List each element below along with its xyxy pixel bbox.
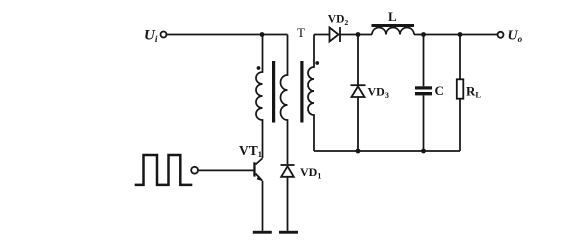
- wire base: [198, 169, 253, 171]
- terminal Uo: [498, 32, 504, 38]
- svg-text:Ui: Ui: [144, 28, 158, 46]
- ground VD1 anode: [279, 231, 298, 234]
- svg-text:C: C: [435, 83, 444, 98]
- svg-text:VD2: VD2: [328, 13, 349, 26]
- wire VD2 to L: [358, 34, 372, 36]
- svg-text:Uo: Uo: [508, 29, 523, 45]
- capacitor C: [415, 35, 432, 152]
- label VD3: [368, 85, 389, 101]
- label RL: [466, 84, 481, 100]
- label T: [297, 25, 305, 40]
- diode VD1: [281, 165, 295, 231]
- label Ui: [144, 28, 158, 46]
- pulse source waveform: [135, 155, 193, 185]
- transistor VT1: [253, 158, 263, 231]
- label C: [435, 83, 444, 98]
- terminal base input: [191, 167, 198, 174]
- transformer secondary winding N2: [308, 35, 314, 152]
- diode VD2: [330, 27, 359, 42]
- svg-text:VT1: VT1: [239, 143, 262, 159]
- polarity dot secondary: [315, 61, 319, 65]
- diode VD3: [351, 35, 366, 152]
- svg-text:RL: RL: [466, 84, 481, 100]
- terminal Ui: [161, 32, 167, 38]
- transformer T primary winding N1: [256, 35, 263, 159]
- wire top input: [167, 34, 288, 36]
- polarity dot primary: [257, 66, 261, 70]
- inductor L: [372, 24, 415, 35]
- node C branch: [421, 32, 426, 37]
- resistor RL: [457, 35, 464, 152]
- bottom rail secondary: [314, 150, 460, 152]
- svg-text:T: T: [297, 25, 305, 40]
- ground VT1 emitter: [253, 231, 272, 234]
- node rail C: [421, 149, 426, 154]
- label VT1: [239, 143, 262, 159]
- svg-text:VD3: VD3: [368, 85, 389, 101]
- label VD2: [328, 13, 349, 26]
- node A junction: [260, 32, 265, 37]
- transformer reset winding N3: [281, 35, 288, 165]
- svg-text:L: L: [388, 9, 397, 24]
- node after VD2: [356, 32, 361, 37]
- svg-text:VD1: VD1: [300, 165, 321, 181]
- label VD1: [300, 165, 321, 181]
- wire L to output: [414, 34, 498, 36]
- node RL branch: [458, 32, 463, 37]
- node rail VD3: [356, 149, 361, 154]
- label L: [388, 9, 397, 24]
- transformer core: [272, 61, 304, 123]
- label Uo: [508, 29, 523, 45]
- wire secondary top to VD2: [314, 34, 330, 36]
